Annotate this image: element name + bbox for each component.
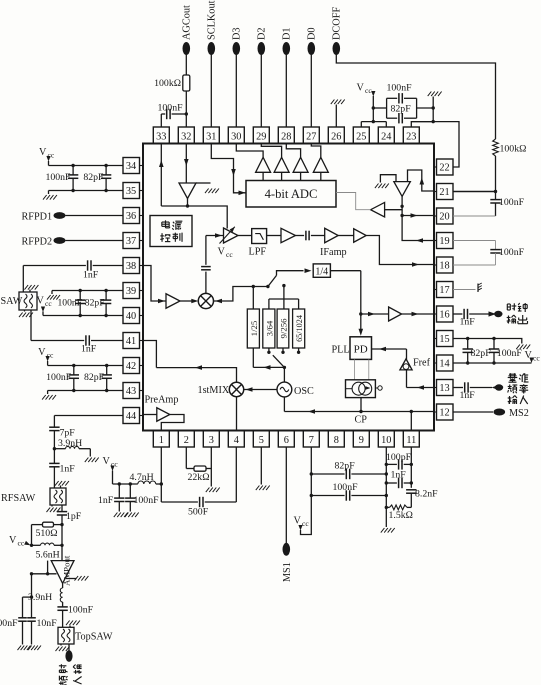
rail over dividers <box>269 298 299 300</box>
terminal SCLKout <box>208 42 216 55</box>
capacitor 1nF (pin 16 clock out) <box>453 313 462 315</box>
capacitor 100nF (pin7 to pin10 net) <box>311 495 344 497</box>
IF amp 3 <box>338 235 354 237</box>
svg-text:40: 40 <box>126 311 136 322</box>
wire pin 20 (thin) <box>453 215 496 217</box>
charge pump links <box>353 359 355 379</box>
terminal MS1 <box>283 543 291 556</box>
resistor 100k ohm (DCOFF to pin21 node) <box>493 139 499 156</box>
divider block 65/1024 <box>293 309 305 348</box>
svg-text:V: V <box>357 83 365 94</box>
ground above RFSAW <box>60 486 62 489</box>
phase detector PD (PLL) <box>350 337 372 360</box>
svg-text:8: 8 <box>334 435 339 446</box>
IC U1 44-pin QFP body <box>143 144 434 431</box>
svg-text:100nF: 100nF <box>497 348 523 359</box>
wire pin 10 to ground <box>385 447 387 527</box>
svg-text:82pF: 82pF <box>471 348 492 359</box>
variable gain amp (Vcc) <box>224 228 239 243</box>
wire pin 2 down <box>185 447 187 469</box>
ground below RFSAW <box>51 505 53 507</box>
capacitor 100pF (pin10-pin11) <box>386 463 397 465</box>
svg-text:10nF: 10nF <box>37 618 58 629</box>
label 射频输入 (RF input) <box>59 664 68 672</box>
wire 1/25 top <box>252 287 254 310</box>
svg-text:1stMIX: 1stMIX <box>198 385 230 396</box>
svg-text:5.6nH: 5.6nH <box>36 550 60 561</box>
svg-text:34: 34 <box>126 161 136 172</box>
capacitor 100nF (pin33 to AGC line) <box>161 113 165 115</box>
svg-text:100kΩ: 100kΩ <box>500 144 527 155</box>
svg-text:CP: CP <box>355 415 368 426</box>
wire pin 32 into buffer (down arrow) <box>185 144 187 183</box>
wire 1stMIX output to pin 41 <box>156 368 236 383</box>
IF input amp (from pin 38) <box>143 266 166 302</box>
wire D2 to pin 29 <box>260 55 262 128</box>
inductor 3.9nH shunt to ground <box>54 448 65 450</box>
wire Fref into PD (arrow) <box>372 348 407 350</box>
RF amplifier AMPout <box>51 561 74 584</box>
svg-text:9/256: 9/256 <box>278 318 288 339</box>
svg-text:33: 33 <box>156 132 166 143</box>
terminal AGCout <box>183 42 191 55</box>
svg-text:5: 5 <box>259 435 264 446</box>
svg-text:41: 41 <box>126 336 136 347</box>
terminal D3 <box>233 42 241 55</box>
svg-text:3.9nH: 3.9nH <box>58 438 82 449</box>
svg-text:MS2: MS2 <box>509 408 529 419</box>
ground at amp <box>66 578 77 580</box>
svg-text:DCOFF: DCOFF <box>332 7 343 40</box>
wire comparator out to ADC right <box>336 193 371 210</box>
svg-text:32: 32 <box>181 132 191 143</box>
svg-text:100nF: 100nF <box>46 372 72 383</box>
svg-text:100nF: 100nF <box>68 605 94 616</box>
power control block 电源控制 <box>150 216 192 247</box>
svg-text:V: V <box>103 456 111 467</box>
RF input terminal <box>68 644 70 651</box>
capacitor 82pF (pin39-40) <box>105 291 107 301</box>
wire mixer2 to amp (arrow) <box>206 235 224 237</box>
wire pin 44 to 7pF chain <box>54 415 123 417</box>
wire to RF amp <box>61 525 63 561</box>
svg-text:35: 35 <box>126 186 136 197</box>
divider block 9/256 <box>277 309 289 348</box>
svg-text:RFPD2: RFPD2 <box>22 237 53 248</box>
svg-text:cc: cc <box>365 86 372 95</box>
ground above SAW <box>29 290 31 293</box>
svg-text:20: 20 <box>439 212 449 223</box>
svg-text:RFSAW: RFSAW <box>1 493 36 504</box>
svg-text:82pF: 82pF <box>84 372 105 383</box>
svg-text:OSC: OSC <box>294 386 314 397</box>
wire to IF SAW <box>22 266 24 293</box>
svg-text:100pF: 100pF <box>386 452 412 463</box>
svg-text:10: 10 <box>381 435 391 446</box>
right pin boxes 22..12 <box>437 404 454 420</box>
svg-text:22: 22 <box>439 163 449 174</box>
svg-text:21: 21 <box>439 187 449 198</box>
wire SAW to pin41 cap <box>30 310 32 341</box>
wire pin 29 to buffer2 <box>261 144 281 157</box>
svg-text:14: 14 <box>439 359 449 370</box>
label 时钟输出 (clock output) <box>507 303 516 310</box>
wire Vcc rail to pin1 <box>112 471 114 485</box>
svg-text:cc: cc <box>45 299 52 308</box>
Fref buffer <box>406 349 408 360</box>
capacitor 1nF (pin 41) <box>85 335 87 345</box>
wire cap to pin 18 <box>495 253 497 265</box>
svg-text:9: 9 <box>359 435 364 446</box>
divider block 3/64 <box>263 309 275 348</box>
wire rail down to bottom caps <box>31 574 33 618</box>
svg-text:1pF: 1pF <box>66 511 82 522</box>
svg-text:RFPD1: RFPD1 <box>22 212 53 223</box>
capacitor 1nF to ground <box>118 484 120 498</box>
wire pin 31 to ADC (clock) <box>211 144 246 193</box>
wire node to comparator <box>385 206 403 209</box>
wire D3 to pin 30 <box>235 55 237 128</box>
wire pin 12 to MS2 <box>453 411 493 413</box>
4-bit ADC block <box>246 181 336 208</box>
wire D1 to pin 28 <box>285 55 287 128</box>
svg-text:500F: 500F <box>188 507 209 518</box>
IF amp 2 <box>325 228 339 243</box>
svg-text:30: 30 <box>231 132 241 143</box>
wire to pin 3 and ground <box>206 468 211 470</box>
ground (top right) <box>432 97 434 122</box>
svg-text:13: 13 <box>439 383 449 394</box>
svg-text:43: 43 <box>126 386 136 397</box>
wire RFPD1 to pin 36 <box>66 215 124 217</box>
wire pin 21 to node <box>453 191 496 193</box>
svg-text:7pF: 7pF <box>60 428 76 439</box>
wire charge pump to CP line <box>360 398 362 412</box>
clock divider output buffer <box>330 270 360 272</box>
svg-text:1nF: 1nF <box>391 470 407 481</box>
terminal MS2 <box>494 409 506 416</box>
capacitor 100nF (pin21-pin20) <box>495 192 497 200</box>
bottom pin boxes 1..11 <box>153 431 169 448</box>
wire pin 14 to Vcc <box>453 362 532 364</box>
svg-text:3/64: 3/64 <box>264 320 274 336</box>
svg-text:1.5kΩ: 1.5kΩ <box>389 510 413 521</box>
wire AGC node to gain-control amp <box>188 206 228 229</box>
wire AGCout to resistor <box>185 55 187 76</box>
svg-text:25: 25 <box>356 132 366 143</box>
wire DCOFF to 100k ohm right rail <box>336 55 495 140</box>
svg-text:cc: cc <box>533 354 540 363</box>
svg-text:MS1: MS1 <box>282 562 293 582</box>
svg-text:8.2nF: 8.2nF <box>415 489 438 500</box>
wire amp to LPF <box>238 235 252 237</box>
svg-text:510Ω: 510Ω <box>36 528 58 539</box>
svg-text:24: 24 <box>381 132 391 143</box>
capacitor 100nF (to TopSAW) <box>62 602 64 607</box>
resistor 100k ohm (AGC line) <box>183 75 190 91</box>
svg-text:cc: cc <box>226 250 233 259</box>
wire pin 13 reference to Fref buffer <box>406 370 408 388</box>
wire OSC control from CP line <box>283 397 285 412</box>
svg-text:AGCout: AGCout <box>182 5 193 40</box>
svg-text:AMPout: AMPout <box>62 555 72 586</box>
svg-text:100kΩ: 100kΩ <box>154 78 181 89</box>
wire to clock buffer and pin 16 <box>361 313 389 315</box>
wire pin 1 down <box>160 447 162 502</box>
capacitor 100nF to ground <box>129 484 131 498</box>
ground above TopSAW <box>69 626 71 628</box>
capacitor 1nF (pin 38) <box>93 265 123 267</box>
svg-text:4-bit ADC: 4-bit ADC <box>265 187 318 201</box>
svg-text:V: V <box>294 516 302 527</box>
svg-text:100nF: 100nF <box>499 197 525 208</box>
svg-text:1nF: 1nF <box>83 270 99 281</box>
terminal D2 <box>258 42 266 55</box>
capacitor 1nF (pin 13 reference input) <box>453 387 463 389</box>
svg-text:100nF: 100nF <box>158 103 184 114</box>
svg-text:3: 3 <box>209 435 214 446</box>
wire D0 to pin 27 <box>310 55 312 128</box>
svg-text:100nF: 100nF <box>387 83 413 94</box>
svg-text:82pF: 82pF <box>391 104 412 115</box>
capacitor 82pF (pin15-pin14) <box>467 339 469 350</box>
2nd mixer <box>198 293 213 308</box>
wire pin 33 to 100nF <box>160 114 162 127</box>
terminal reference freq input <box>492 385 500 390</box>
inductor 4.7nH <box>138 481 156 484</box>
svg-text:PreAmp: PreAmp <box>145 395 179 406</box>
terminal clock output with arrow <box>489 311 497 316</box>
wire mixer2 right input from divider switch <box>214 287 268 302</box>
oscillator OSC <box>277 382 292 397</box>
ground ref of buffer <box>196 182 211 184</box>
wire SCLKout to pin 31 <box>210 55 212 128</box>
svg-text:11: 11 <box>406 435 416 446</box>
capacitor 82pF (pin7 to pin10 net) <box>311 473 344 475</box>
wire pin 19 to cap <box>453 240 496 242</box>
divider block 1/25 <box>247 309 259 348</box>
IF low-pass filter LPF <box>252 229 267 244</box>
series capacitor (mixer2 out) <box>205 236 207 265</box>
comparator amp (to ADC) <box>371 202 385 217</box>
svg-text:22kΩ: 22kΩ <box>188 472 210 483</box>
wire 100k to pin21 node <box>495 156 497 192</box>
capacitor 7pF <box>49 426 59 428</box>
svg-text:1/25: 1/25 <box>249 320 259 336</box>
svg-text:D0: D0 <box>307 27 318 40</box>
svg-text:V: V <box>9 535 17 546</box>
svg-text:36: 36 <box>126 211 136 222</box>
svg-text:100nF: 100nF <box>0 618 18 629</box>
svg-text:V: V <box>39 147 47 158</box>
capacitor 100nF (pin39-40) <box>79 291 81 301</box>
svg-text:100nF: 100nF <box>499 247 525 258</box>
svg-text:1nF: 1nF <box>98 495 114 506</box>
wire pin 11 down <box>410 447 412 488</box>
svg-text:28: 28 <box>281 132 291 143</box>
wire pin 28 to buffer3 <box>286 144 300 157</box>
svg-text:7: 7 <box>309 435 314 446</box>
svg-text:V: V <box>37 296 45 307</box>
wire OSC to 1st mixer (arrow) <box>244 389 278 391</box>
top pin boxes 33..23 <box>403 127 419 144</box>
arrow into 1/4 divider <box>305 268 312 273</box>
wire 1stMIX to pin 4 <box>236 397 238 431</box>
svg-text:39: 39 <box>126 286 136 297</box>
svg-text:cc: cc <box>302 519 309 528</box>
buffer amp (inverting, pin 32) <box>179 183 196 199</box>
wire Vcc rail to pins 25,24 <box>361 121 386 123</box>
svg-text:PLL: PLL <box>332 345 350 356</box>
capacitor 10nF <box>27 617 36 619</box>
wire preamp out to pin 1 <box>161 415 184 431</box>
svg-text:1: 1 <box>159 435 164 446</box>
capacitor 100nF (left, clipped) <box>18 617 27 619</box>
CP control line <box>284 411 434 413</box>
arrow into mixer2 left <box>191 299 198 304</box>
detector output node <box>401 196 403 206</box>
svg-text:65/1024: 65/1024 <box>295 315 304 342</box>
resistor 1.5k ohm <box>386 506 389 508</box>
AGC detector amp (pin 21) <box>394 182 411 197</box>
wire Vcc to pin 7 <box>301 447 312 535</box>
svg-text:100nF: 100nF <box>58 298 83 309</box>
terminal D1 <box>283 42 291 55</box>
svg-text:26: 26 <box>331 132 341 143</box>
wire pin 15 to ground <box>453 339 522 344</box>
svg-text:1nF: 1nF <box>81 344 97 355</box>
wire switch to OSC <box>283 367 285 382</box>
svg-text:15: 15 <box>439 334 449 345</box>
wire node to pin 20 (out arrow) <box>402 210 434 216</box>
svg-text:SCLKout: SCLKout <box>207 0 218 40</box>
svg-text:1nF: 1nF <box>60 464 76 475</box>
wire pin 21 into detector (up arrow) <box>408 170 435 191</box>
svg-text:27: 27 <box>306 132 316 143</box>
svg-text:V: V <box>38 347 46 358</box>
svg-text:82pF: 82pF <box>85 298 105 309</box>
svg-text:16: 16 <box>439 310 449 321</box>
svg-text:4.7nH: 4.7nH <box>130 472 154 483</box>
wire node to pin 19 (in arrow) <box>402 216 434 241</box>
divider select switch (lower) and wire to 1/25 <box>252 348 254 367</box>
capacitor 1pF <box>61 505 63 512</box>
svg-text:38: 38 <box>126 261 136 272</box>
inductor 5.6nH <box>32 544 41 546</box>
wire pin 6 to MS1 <box>285 447 287 543</box>
ground below TopSAW <box>60 644 62 646</box>
wire pin 30 to buffer1 <box>236 144 263 157</box>
capacitor 500F (pin1 to pin4) <box>161 501 198 503</box>
charge pump block <box>346 380 376 398</box>
charge pump output node <box>375 387 377 389</box>
wire CP to pin 11 <box>410 412 412 431</box>
terminal D0 <box>308 42 316 55</box>
open stub at pin 17 <box>453 289 476 291</box>
wire pin 27 to buffer4 <box>311 144 321 157</box>
1st mixer 1stMIX <box>229 382 243 396</box>
ground ref Gamma wire <box>380 175 396 183</box>
svg-text:100nF: 100nF <box>134 495 160 506</box>
label 基准频率输入 (reference frequency input) <box>508 373 518 382</box>
capacitor 1nF (RF) <box>49 462 59 464</box>
wire RFPD2 to pin 37 <box>66 240 124 242</box>
wire IF out to pin 18 <box>366 236 434 265</box>
svg-text:PD: PD <box>354 344 368 356</box>
capacitor 1nF (pin10-pin11) <box>386 482 397 484</box>
svg-text:V: V <box>218 247 226 258</box>
svg-text:TopSAW: TopSAW <box>75 632 113 643</box>
wire Vcc stem <box>372 96 374 122</box>
wire resistor to pin 32 <box>185 91 187 127</box>
left pin boxes 34..44 <box>123 158 140 174</box>
inductor 3.9nH (vertical) <box>62 583 64 588</box>
svg-text:IFamp: IFamp <box>320 247 347 258</box>
divider block 1/4 <box>313 264 330 277</box>
svg-text:D2: D2 <box>257 27 268 40</box>
svg-text:2: 2 <box>184 435 189 446</box>
svg-text:31: 31 <box>206 132 216 143</box>
svg-text:1/4: 1/4 <box>315 267 328 278</box>
svg-text:100nF: 100nF <box>45 172 71 183</box>
svg-text:4: 4 <box>234 435 239 446</box>
svg-text:82pF: 82pF <box>335 461 356 472</box>
wire up to pin 4 <box>235 447 237 502</box>
svg-text:23: 23 <box>406 132 416 143</box>
wire ground rail to pin 23 and pin 22 detour <box>411 122 459 167</box>
svg-text:LPF: LPF <box>249 247 267 258</box>
svg-text:82pF: 82pF <box>83 172 104 183</box>
divider bottom contacts <box>268 348 270 352</box>
ground below SAW <box>24 310 26 312</box>
svg-text:Fref: Fref <box>413 358 431 369</box>
svg-text:cc: cc <box>18 539 25 548</box>
switch contact from 3/64-65/1024 rail <box>283 286 285 299</box>
ground rail (pin 39) <box>52 290 123 292</box>
IF amp 1 <box>267 235 281 237</box>
svg-text:12: 12 <box>439 408 449 419</box>
svg-text:19: 19 <box>439 236 449 247</box>
svg-text:44: 44 <box>126 411 136 422</box>
wire pin 33 AGC sense (up arrow) <box>160 144 162 206</box>
wire to Vcc node <box>31 525 33 546</box>
terminal DCOFF <box>333 42 341 55</box>
svg-text:1nF: 1nF <box>460 390 476 401</box>
svg-text:D3: D3 <box>232 27 243 40</box>
wire loop right to ground rail <box>417 107 434 109</box>
svg-text:D1: D1 <box>282 27 293 40</box>
SAW filter TopSAW <box>58 627 74 644</box>
svg-text:1nF: 1nF <box>460 317 476 328</box>
ground at pin 26 <box>335 105 337 128</box>
capacitor 8.2nF (on pin11 branch) <box>406 489 416 491</box>
svg-text:17: 17 <box>439 285 449 296</box>
wire pin 44 to preamp <box>143 414 157 416</box>
svg-text:37: 37 <box>126 236 136 247</box>
series capacitor IF <box>296 235 305 237</box>
svg-text:18: 18 <box>439 261 449 272</box>
wire pin 5 to ground <box>260 447 262 485</box>
capacitor 100nF (pin19-pin18) <box>490 249 500 251</box>
divider select switch (upper) <box>268 275 277 286</box>
svg-text:6: 6 <box>284 435 289 446</box>
resistor 22k ohm <box>194 466 206 471</box>
ADC input buffers (D3-D0) <box>256 157 271 172</box>
resistor 510 ohm <box>54 524 63 526</box>
svg-text:29: 29 <box>256 132 266 143</box>
svg-text:42: 42 <box>126 361 136 372</box>
svg-text:100nF: 100nF <box>333 482 359 493</box>
